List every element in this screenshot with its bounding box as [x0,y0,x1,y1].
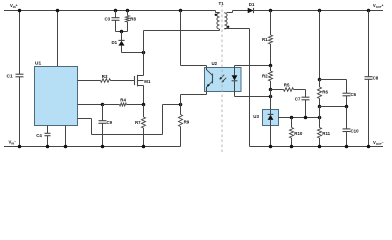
wire: U1 gate-drive pin [78,80,101,82]
light arrows inside U2 [220,75,227,83]
junction: U1 GND on V_IN- rail [64,145,68,149]
label R10 [294,131,303,136]
wire: C6 top link [320,80,347,94]
wire: R4 to source node [127,104,144,106]
svg-text:C4: C4 [36,133,42,138]
node V_OUT- label [373,140,384,146]
op-amp U1 controller IC box [35,67,78,126]
resistor R2 [269,66,273,90]
wire: C3 branch from rail [115,11,117,18]
svg-text:R1: R1 [262,37,268,42]
svg-text:M1: M1 [144,79,151,84]
wire: R8 branch from rail [127,11,129,16]
resistor R5 [284,88,294,92]
svg-text:C1: C1 [7,73,13,79]
svg-text:U3: U3 [253,114,259,119]
junction: C10 bottom on V_OUT- rail [345,145,349,149]
transistor inside U2 (photo-transistor) [207,68,213,92]
svg-text:R3: R3 [102,74,108,79]
transistor M1 (NMOS switch) [111,75,144,105]
wire: secondary bottom return [225,29,250,147]
wire: U3 ref pin line [279,117,320,119]
svg-text:R4: R4 [120,97,126,102]
resistor R7 (source sense) [142,105,146,147]
label C8 [373,76,379,81]
junction: U1 VIN pin on top rail [56,9,60,13]
wire: input branch from V_IN+ to C1 [19,11,21,75]
isolation barrier (dashed) [221,5,223,153]
wire: opto LED anode to divider tap [235,66,271,68]
resistor R11 [318,118,322,147]
junction: C9 top node [101,103,105,107]
junction: snubber on drain line [142,51,146,55]
junction: C1 bottom on V_IN- rail [18,145,22,149]
label R8 [130,17,136,22]
svg-text:D1: D1 [112,40,118,45]
wire: rail to R6 top node [319,11,321,80]
junction: opto emitter / R9 node [179,103,183,107]
wire: V_IN- bottom rail (primary ground) [4,146,181,148]
wire: U1 VIN pin to top rail [57,11,59,67]
wire: V_OUT+ top rail (secondary) [227,11,384,13]
junction: U3 anode on V_OUT- rail [269,145,273,149]
resistor R8 [126,16,130,32]
capacitor C3 [112,18,120,32]
label C4 [36,133,42,138]
junction: snubber node [120,30,124,34]
LED inside U2 [232,68,238,92]
svg-text:R6: R6 [322,89,328,94]
label R4 [120,97,126,102]
shunt reference U3 box [263,110,279,126]
label R2 [262,73,268,78]
node V_IN+ label [10,3,18,9]
capacitor C10 [343,107,351,147]
svg-text:T1: T1 [219,1,225,6]
junction: R6 column on V_OUT+ rail [318,9,322,13]
wire: opto emitter pin to R9 node [181,92,207,105]
svg-text:C8: C8 [373,76,379,81]
wire: sense node to R4 [103,104,120,106]
label R9 [184,120,190,125]
svg-text:C7: C7 [295,96,301,101]
svg-text:R11: R11 [322,131,330,136]
resistor R10 [290,118,294,147]
svg-text:R5: R5 [284,82,290,87]
wire: U1 CS pin to sense node [78,104,103,106]
optocoupler U2 box [205,68,242,92]
resistor R9 [179,105,183,147]
junction: R10 top [290,116,294,120]
junction: MOSFET source node [142,103,146,107]
junction: R1/R2 tap (opto anode) [269,64,273,68]
wire: U1 bottom pin 1 to ground via C4 [47,126,49,134]
svg-text:R10: R10 [294,131,303,136]
label D1 (rectifier) [249,2,255,7]
wire: D1 anode to switch node [122,46,144,53]
label U3 [253,114,259,119]
label T1 [219,1,225,6]
junction: C6/C10 node [345,105,349,109]
resistor R3 [101,79,111,83]
svg-text:R2: R2 [262,73,268,78]
wire: drain line to MOSFET [143,53,145,76]
transformer T1 primary phase dot [215,14,217,16]
label R7 [135,120,141,125]
junction: C8 bottom on V_OUT- rail [367,145,371,149]
svg-text:D1: D1 [249,2,255,7]
zener symbol inside U3 [268,110,274,126]
label C10 [351,128,360,133]
label U1 [35,60,41,66]
junction: R1 top on V_OUT+ rail [269,9,273,13]
wire: primary bottom to MOSFET drain [144,29,220,53]
wire: R5 from R2 bottom node [271,89,284,91]
node V_OUT+ label [373,3,384,9]
wire: snubber join C3-R8 [116,31,128,33]
junction: opto collector branch on top rail [179,9,183,13]
capacitor C9 [99,105,107,147]
capacitor C1 [16,74,24,146]
svg-text:R7: R7 [135,120,141,125]
label C9 [107,120,113,125]
diode D2 (output rectifier, labeled D1) [248,8,254,14]
svg-text:R9: R9 [184,120,190,125]
transformer T1 secondary phase dot [227,26,229,28]
junction: opto cathode node [269,95,273,99]
wire: V_IN+ top rail (primary) [4,11,220,13]
junction: R6 bottom node [318,105,322,109]
svg-text:R8: R8 [130,17,136,22]
junction: C3 top on top rail [114,9,118,13]
diode D1 (snubber, cathode up) [118,40,124,45]
wire: snubber node to D1 cathode [121,32,123,41]
label D1 [112,40,118,45]
wire: R6 bottom node down to ref line [319,107,321,118]
wire: opto LED cathode to U3 cathode [235,92,271,97]
wire: U1 GND pin to bottom rail [65,126,67,147]
junction: C9 bottom on V_IN- rail [101,145,105,149]
label R6 [322,89,328,94]
junction: R2 bottom / R5 node [269,88,273,92]
wire: R5 to C7 [294,90,306,98]
label C3 [105,17,111,22]
svg-text:C9: C9 [107,120,113,125]
label M1 [144,79,151,84]
transformer T1 secondary winding [225,13,228,30]
wire: R2 bottom to U3 cathode [270,90,272,110]
junction: R11 bottom on V_OUT- rail [318,145,322,149]
label R1 [262,37,268,42]
junction: R8 top on top rail [126,9,130,13]
capacitor C6 [343,93,351,106]
label R11 [322,131,330,136]
wire: V_OUT- bottom rail (secondary ground) [250,146,384,148]
junction: R7 bottom on V_IN- rail [142,145,146,149]
label U2 [212,61,218,66]
svg-text:U1: U1 [35,60,41,66]
svg-text:C6: C6 [351,92,357,97]
capacitor C7 [302,97,310,117]
resistor R1 [269,11,273,66]
junction: R6 top node [318,78,322,82]
svg-text:U2: U2 [212,61,218,66]
wire: top rail to opto collector pin [181,11,207,68]
capacitor C8 [365,11,373,147]
label C7 [295,96,301,101]
junction: C1 top on V_IN+ rail [18,9,22,13]
label R3 [102,74,108,79]
svg-text:C10: C10 [351,128,360,133]
wire: C6 bottom link [320,106,347,108]
junction: C8 top on V_OUT+ rail [367,9,371,13]
resistor R6 [318,80,322,107]
capacitor C4 [45,133,51,146]
node V_IN- label [9,140,17,146]
junction: ref line meets R6/R11 column [318,116,322,120]
junction: C4 on V_IN- rail [46,145,50,149]
wire: U1 FB pin staircase to opto emitter node [78,105,181,135]
junction: R10 bottom on V_OUT- rail [290,145,294,149]
junction: C7 bottom [304,116,308,120]
transformer T1 primary winding [217,13,220,30]
wire: U3 anode to V_OUT- rail [270,126,272,147]
label C6 [351,92,357,97]
svg-text:C3: C3 [105,17,111,22]
resistor R4 [120,103,127,106]
label R5 [284,82,290,87]
label C1 [7,73,13,79]
